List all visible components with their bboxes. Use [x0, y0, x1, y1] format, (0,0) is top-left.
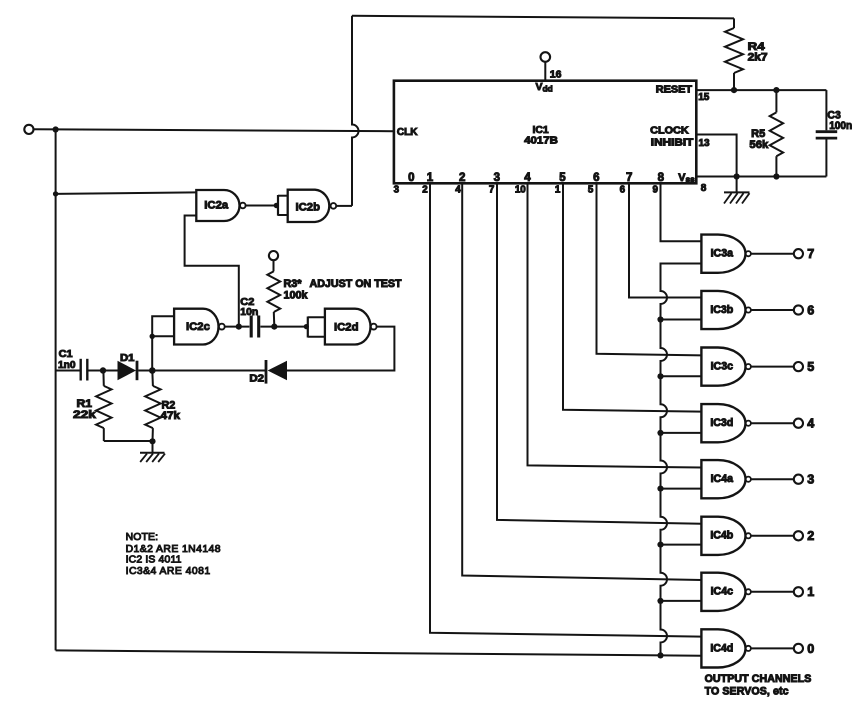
terminal (R3 supply): [269, 251, 278, 260]
svg-text:100n: 100n: [829, 120, 852, 132]
svg-text:IC4d: IC4d: [710, 642, 733, 654]
wire: [597, 183, 702, 355]
nand-gate IC2a: [196, 190, 245, 221]
wire: [661, 319, 702, 321]
node: [734, 173, 740, 179]
svg-text:10: 10: [515, 185, 526, 196]
wire: [751, 478, 794, 480]
wire: [138, 370, 266, 372]
svg-text:0: 0: [807, 642, 814, 656]
resistor R2 47k: [145, 371, 181, 442]
node: [657, 316, 663, 322]
svg-text:8: 8: [658, 172, 665, 184]
svg-text:5: 5: [807, 360, 814, 374]
capacitor C3 100n: [816, 90, 853, 176]
svg-text:13: 13: [699, 138, 711, 149]
resistor R4 2k7: [725, 18, 768, 90]
svg-text:D1&2 ARE 1N4148: D1&2 ARE 1N4148: [126, 544, 221, 555]
wire: [152, 316, 174, 370]
svg-text:IC3&4 ARE 4081: IC3&4 ARE 4081: [126, 566, 211, 577]
output terminal 0: [794, 642, 814, 656]
svg-text:CLOCK: CLOCK: [650, 126, 689, 137]
wire: [661, 375, 702, 377]
capacitor C2 10n: [240, 297, 258, 338]
wire: [661, 544, 702, 546]
svg-text:2: 2: [422, 185, 428, 196]
wire: [661, 488, 702, 490]
output channels text: [705, 673, 812, 698]
svg-text:TO SERVOS, etc: TO SERVOS, etc: [705, 686, 789, 698]
svg-text:IC3c: IC3c: [711, 361, 733, 373]
input terminal: [24, 125, 33, 134]
svg-text:3: 3: [807, 473, 814, 487]
wire: [287, 327, 394, 371]
svg-text:4: 4: [455, 185, 461, 196]
wire: [89, 370, 118, 372]
resistor R1 22k: [73, 371, 112, 442]
diode D1: [118, 353, 138, 380]
svg-text:2: 2: [459, 172, 465, 184]
nand-gate IC2c: [174, 309, 225, 345]
svg-text:4: 4: [524, 172, 531, 184]
wire: [751, 309, 794, 311]
wire: [152, 335, 174, 337]
svg-text:D2: D2: [249, 374, 264, 385]
svg-text:IC3d: IC3d: [710, 417, 733, 429]
svg-text:7: 7: [807, 247, 814, 261]
svg-text:6: 6: [593, 172, 599, 184]
svg-text:8: 8: [701, 183, 707, 194]
svg-text:47k: 47k: [161, 410, 181, 422]
wire: [751, 591, 794, 593]
output terminal 2: [794, 529, 814, 543]
svg-text:16: 16: [550, 69, 562, 81]
svg-text:IC3b: IC3b: [710, 304, 733, 316]
svg-text:IC1: IC1: [533, 125, 549, 136]
wire: [34, 129, 394, 131]
nand-gate IC2d: [308, 309, 377, 345]
output terminal 3: [794, 473, 814, 487]
diode D2: [249, 360, 287, 385]
Vdd terminal pin 16: [536, 52, 562, 93]
svg-text:R3*: R3*: [284, 278, 303, 290]
wire: [462, 183, 701, 580]
node: [773, 173, 779, 179]
output terminal 6: [794, 303, 814, 317]
node: [100, 367, 106, 373]
svg-text:9: 9: [652, 185, 658, 196]
wire: [104, 440, 153, 442]
node: [657, 373, 663, 379]
wire: [56, 650, 702, 655]
node: [53, 191, 58, 196]
and-gate IC4b: [701, 517, 751, 555]
node: [731, 87, 737, 93]
svg-text:Vss: Vss: [678, 172, 695, 184]
node: [274, 203, 279, 208]
wire: [528, 183, 702, 467]
wire: [430, 183, 701, 636]
wire: [563, 183, 701, 411]
wire: [661, 183, 702, 241]
wire: [185, 216, 239, 327]
node: [236, 324, 242, 330]
and-gate IC4c: [701, 573, 751, 611]
svg-text:ADJUST ON TEST: ADJUST ON TEST: [310, 278, 402, 290]
note text: [126, 532, 221, 577]
wire: [629, 183, 701, 297]
pin RESET 15: [656, 84, 710, 103]
svg-text:4: 4: [807, 417, 814, 431]
svg-text:5: 5: [588, 185, 594, 196]
svg-text:1n0: 1n0: [58, 360, 76, 371]
wire: [696, 176, 826, 178]
ground: [724, 177, 750, 204]
svg-text:IC4b: IC4b: [710, 530, 733, 542]
and-gate IC4d: [701, 629, 751, 667]
and-gate IC4a: [701, 460, 751, 498]
svg-text:D1: D1: [120, 353, 135, 364]
svg-text:CLK: CLK: [397, 127, 418, 138]
svg-text:IC2a: IC2a: [204, 200, 229, 212]
wire: [751, 422, 794, 424]
ground: [140, 441, 165, 462]
IC U1 (IC1 4017B): [394, 81, 696, 184]
wire: [56, 192, 197, 194]
pin CLOCK INHIBIT 13: [650, 126, 710, 150]
node: [773, 87, 779, 93]
svg-text:100k: 100k: [284, 290, 309, 302]
output terminal 4: [794, 417, 814, 431]
svg-text:4017B: 4017B: [524, 135, 558, 146]
svg-text:3: 3: [494, 172, 500, 184]
node (D1/R2 junction): [149, 367, 156, 374]
pin Vss 8: [678, 172, 706, 194]
node: [657, 598, 663, 604]
svg-text:7: 7: [489, 185, 495, 196]
svg-text:15: 15: [698, 92, 710, 103]
wire: [352, 16, 734, 19]
svg-text:1: 1: [427, 172, 434, 184]
svg-text:1: 1: [807, 585, 814, 599]
wire: [696, 135, 736, 177]
svg-text:IC4c: IC4c: [711, 586, 733, 598]
node: [657, 542, 663, 548]
output terminal 7: [794, 247, 814, 261]
output terminal 1: [794, 585, 814, 599]
resistor R3 100k: [267, 260, 401, 326]
svg-text:IC2 IS 4011: IC2 IS 4011: [126, 555, 182, 566]
wire: [260, 326, 307, 328]
output terminal 5: [794, 360, 814, 374]
wire: [751, 647, 794, 649]
svg-text:OUTPUT CHANNELS: OUTPUT CHANNELS: [705, 673, 812, 685]
svg-text:2k7: 2k7: [748, 51, 768, 63]
svg-text:22k: 22k: [73, 409, 97, 421]
svg-text:IC3a: IC3a: [711, 248, 733, 260]
svg-text:7: 7: [626, 172, 632, 184]
svg-text:56k: 56k: [749, 139, 769, 151]
wire: [352, 16, 359, 206]
wire: [661, 600, 702, 602]
node: [150, 334, 155, 339]
wire: [696, 89, 826, 91]
svg-text:0: 0: [408, 172, 414, 184]
wire: [751, 253, 794, 255]
capacitor C1 1n0: [58, 349, 87, 381]
svg-text:6: 6: [807, 303, 814, 317]
svg-text:NOTE:: NOTE:: [126, 532, 158, 543]
wire: [336, 205, 352, 207]
and-gate IC3d: [701, 404, 751, 442]
svg-text:5: 5: [559, 172, 566, 184]
wire: [225, 326, 250, 328]
svg-text:RESET: RESET: [656, 84, 692, 95]
svg-text:IC2d: IC2d: [334, 322, 359, 334]
resistor R5 56k: [749, 90, 783, 176]
svg-text:IC2b: IC2b: [296, 201, 321, 213]
svg-text:IC2c: IC2c: [186, 321, 210, 333]
wire: [497, 183, 701, 523]
and-gate IC3a: [701, 235, 751, 273]
svg-text:Vdd: Vdd: [536, 81, 553, 94]
nand-gate IC2b: [278, 190, 336, 222]
and-gate IC3c: [701, 347, 751, 385]
node (input junction): [53, 126, 59, 132]
svg-text:INHIBIT: INHIBIT: [651, 137, 694, 148]
and-gate IC3b: [701, 291, 751, 329]
wire: [55, 130, 57, 651]
wire: [751, 366, 794, 368]
node: [149, 438, 155, 444]
wire (common signal bus): [661, 264, 702, 656]
node: [657, 486, 663, 492]
svg-text:6: 6: [620, 185, 626, 196]
wire: [661, 432, 702, 434]
svg-text:10n: 10n: [240, 307, 258, 318]
node: [271, 324, 277, 330]
node: [657, 652, 663, 658]
svg-text:3: 3: [394, 185, 400, 196]
svg-text:C1: C1: [59, 349, 73, 360]
wire: [246, 205, 278, 207]
wire: [56, 370, 80, 372]
svg-text:IC4a: IC4a: [711, 473, 733, 485]
IC1 output labels 0-8: [408, 172, 665, 184]
svg-text:1: 1: [555, 185, 561, 196]
node: [304, 324, 309, 329]
IC1 pin numbers: [394, 185, 659, 196]
wire: [751, 535, 794, 537]
node: [657, 430, 663, 436]
svg-text:2: 2: [807, 529, 814, 543]
